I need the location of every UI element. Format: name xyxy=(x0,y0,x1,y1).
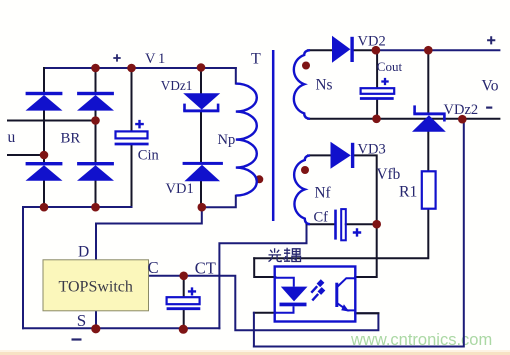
node: bottom rail / right column junction xyxy=(91,203,100,212)
svg-text:R1: R1 xyxy=(399,184,417,201)
wire: Cout bottom lead xyxy=(376,100,378,119)
wire: Np bottom lead to VD1 junction xyxy=(201,196,236,208)
wire: opto emitter stub xyxy=(355,312,378,314)
wire: VD2 cathode to output + rail xyxy=(354,49,376,51)
optocoupler light arrows xyxy=(311,281,323,300)
zener diode VDz2 xyxy=(412,105,446,131)
wire: Cin top lead xyxy=(131,68,133,131)
svg-text:V1: V1 xyxy=(145,51,168,67)
wire: C pin wire to CT and down xyxy=(149,276,379,331)
wire: output minus rail xyxy=(308,118,499,120)
bridge rectifier BR diode top-right xyxy=(77,92,114,111)
optocoupler phototransistor Q1 xyxy=(337,278,356,310)
zener diode VDz1 xyxy=(183,93,220,112)
wire: Cf right plate to Vfb junction xyxy=(346,223,377,225)
label minus primary xyxy=(72,338,82,340)
wire: S rail riser to Nf return xyxy=(219,224,306,328)
wire: VDz2 cathode lead from + rail xyxy=(427,50,429,112)
wire: LED cathode riser down to bottom return xyxy=(253,313,255,347)
node: minus rail / Cout junction xyxy=(372,115,381,124)
transformer feedback winding Nf xyxy=(294,155,310,224)
node: bottom rail / left column junction xyxy=(40,203,49,212)
capacitor Cf xyxy=(336,209,346,240)
resistor R1 xyxy=(422,171,436,208)
wire: VDz2 anode to R1 xyxy=(427,132,429,172)
node: + rail / VDz2 junction xyxy=(424,46,433,55)
wire: Cin bottom lead xyxy=(131,145,133,207)
label 光耦 optocoupler (hand-drawn strokes) xyxy=(269,248,301,262)
wire: R1 bottom lead down and left to LED anode drop xyxy=(254,209,428,259)
wire: bridge right column bottom segment xyxy=(95,181,97,208)
wire: CT cap top lead xyxy=(183,276,185,297)
diode VD2 xyxy=(332,36,354,63)
wire: S pin lead xyxy=(95,311,97,328)
wire: LED cathode stub out of box xyxy=(254,312,275,314)
node: top rail / VDz1 junction V1 xyxy=(197,63,206,72)
transformer core xyxy=(272,50,275,221)
label + primary rail xyxy=(113,54,120,61)
svg-text:T: T xyxy=(251,51,261,68)
transformer primary winding Np xyxy=(236,84,257,196)
svg-text:Ns: Ns xyxy=(316,76,333,93)
wire: bridge left column middle segment xyxy=(43,111,45,163)
label + of Cin xyxy=(135,120,144,128)
wire: VD1 anode lead to junction xyxy=(200,181,202,207)
svg-text:C: C xyxy=(148,258,159,277)
svg-text:VD2: VD2 xyxy=(358,34,386,50)
wire: primary bottom rail from Cin to left and down xyxy=(23,207,132,328)
label + of CT cap xyxy=(188,287,196,295)
wire: S source rail xyxy=(23,327,219,329)
svg-text:S: S xyxy=(77,311,86,330)
wire: VDz1 to VD1 segment xyxy=(200,112,202,162)
node: Ns phase dot xyxy=(302,62,310,70)
svg-text:Vo: Vo xyxy=(482,77,499,94)
svg-text:Nf: Nf xyxy=(315,184,332,201)
wire: bridge left column bottom segment xyxy=(43,181,45,208)
capacitor CT (control cap) xyxy=(167,297,201,309)
node: VD1 / Np / D-wire junction xyxy=(198,203,207,212)
svg-text:VD3: VD3 xyxy=(358,142,386,158)
svg-text:Vfb: Vfb xyxy=(377,166,401,183)
node: Nf phase dot xyxy=(301,166,309,174)
bottom peach strip xyxy=(0,350,510,352)
wire: bridge right column top lead xyxy=(95,68,97,92)
capacitor Cout xyxy=(360,88,394,98)
wire: Nf bottom wire to Cf left plate xyxy=(307,223,335,225)
svg-text:D: D xyxy=(78,243,89,260)
wire: drain D wire from junction to TOPSwitch xyxy=(96,207,202,260)
diode VD1 xyxy=(183,162,223,181)
bridge rectifier BR diode bottom-right xyxy=(77,162,114,181)
transformer secondary winding Ns xyxy=(294,50,310,119)
wire: Np top lead from rail corner xyxy=(235,68,237,84)
svg-text:Np: Np xyxy=(218,132,236,148)
label + output xyxy=(487,36,495,44)
bridge rectifier BR diode top-left xyxy=(26,92,63,111)
TOPSwitch U1 box xyxy=(43,260,149,311)
node: VD2 output junction xyxy=(372,46,381,55)
svg-text:CT: CT xyxy=(195,259,216,278)
node: Cf / Vfb junction xyxy=(372,220,381,229)
node: CT wire / cap junction xyxy=(179,272,188,281)
wire: VD3 cathode right then down to Cf junction (Vfb drop) xyxy=(354,155,376,277)
svg-text:VDz1: VDz1 xyxy=(161,78,193,93)
svg-text:Cf: Cf xyxy=(314,210,329,226)
node: u top / right column junction xyxy=(91,116,100,125)
wire: CT cap bottom lead xyxy=(183,310,185,328)
node: S pin / S rail junction xyxy=(91,324,100,333)
wire: Cout top lead xyxy=(376,50,378,88)
wire: LED anode drop into opto box xyxy=(254,258,275,277)
svg-text:BR: BR xyxy=(61,131,81,147)
capacitor Cin xyxy=(115,131,149,144)
node: top rail / Cin junction xyxy=(127,64,136,73)
svg-text:Cout: Cout xyxy=(377,59,403,74)
wire: input u top line xyxy=(8,120,96,122)
wire: Ns top wire to VD2 xyxy=(308,49,333,51)
svg-text:TOPSwitch: TOPSwitch xyxy=(59,279,133,296)
svg-text:u: u xyxy=(8,129,16,146)
optocoupler U2 box xyxy=(275,267,356,322)
label + of Cf xyxy=(353,228,361,236)
node: minus rail / bottom return junction xyxy=(458,115,467,124)
node: top rail / bridge right column junction xyxy=(91,64,100,73)
optocoupler LED xyxy=(275,278,294,313)
svg-text:VD1: VD1 xyxy=(166,181,194,197)
wire: Nf top wire to VD3 xyxy=(308,154,331,156)
wire: bottom return to output minus xyxy=(254,119,464,347)
wire: input u bottom line xyxy=(8,154,44,156)
wire: primary top rail V1 xyxy=(44,67,236,69)
wire: top-left corner down to bridge diode D1a xyxy=(43,68,45,92)
svg-text:Cin: Cin xyxy=(138,148,160,164)
label - output xyxy=(486,106,492,108)
bridge rectifier BR diode bottom-left xyxy=(26,162,63,181)
node: Np phase dot xyxy=(255,175,263,183)
node: u bottom / left column junction xyxy=(40,151,49,160)
diode VD3 xyxy=(331,142,355,169)
svg-text:VDz2: VDz2 xyxy=(444,102,479,118)
wire: VDz1/VD1 column top lead xyxy=(200,67,202,94)
label + of Cout xyxy=(381,78,388,85)
node: CT cap / S rail junction xyxy=(179,325,188,334)
wire: bridge right column middle segment xyxy=(95,111,97,163)
